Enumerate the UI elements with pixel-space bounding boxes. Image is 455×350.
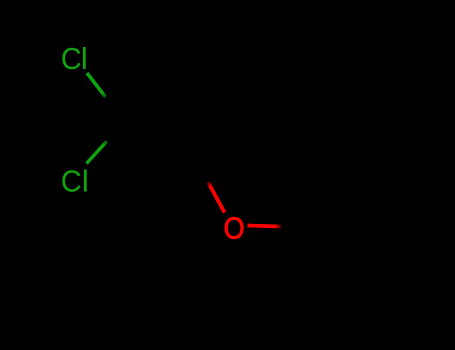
svg-text:l: l xyxy=(81,41,88,76)
bond Cl(top)-C half-bond xyxy=(87,73,106,97)
svg-text:C: C xyxy=(61,42,82,76)
bond Cl(bottom)-C half-bond xyxy=(87,141,108,164)
svg-text:O: O xyxy=(224,212,245,246)
svg-text:l: l xyxy=(82,163,89,198)
bond O-C horizontal half-bond xyxy=(248,226,282,227)
svg-text:C: C xyxy=(61,164,82,198)
bond C-O diagonal half-bond xyxy=(208,182,225,213)
